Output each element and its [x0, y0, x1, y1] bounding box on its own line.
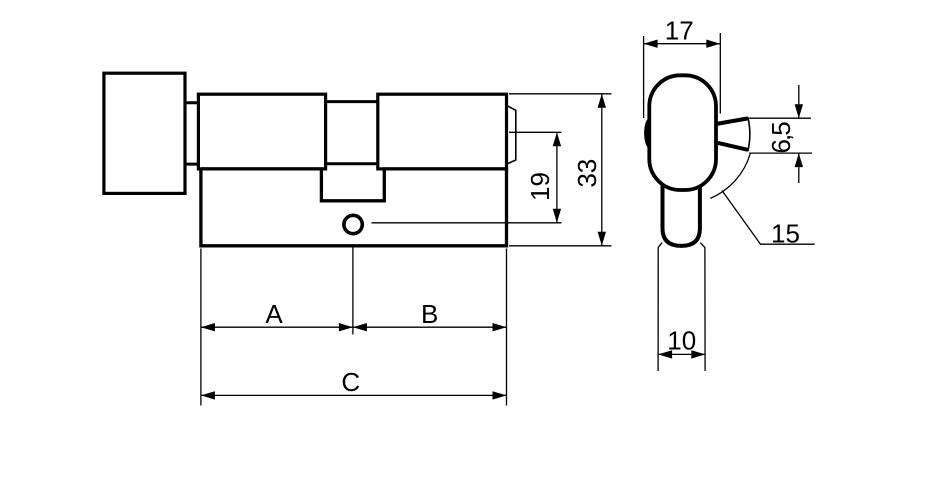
- svg-text:17: 17: [665, 15, 694, 45]
- svg-text:6,5: 6,5: [766, 122, 796, 154]
- svg-text:A: A: [265, 299, 283, 329]
- svg-text:C: C: [341, 367, 360, 397]
- svg-text:15: 15: [771, 218, 800, 248]
- svg-text:33: 33: [572, 159, 602, 188]
- svg-text:10: 10: [667, 325, 696, 355]
- svg-text:19: 19: [525, 172, 555, 201]
- svg-text:B: B: [421, 299, 438, 329]
